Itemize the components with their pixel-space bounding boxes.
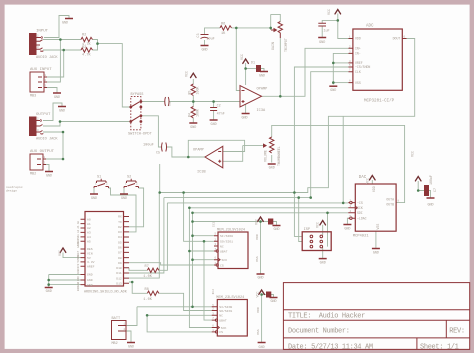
junction at 48.7,284.6 — [47, 283, 50, 286]
power VCC R5 — [191, 73, 197, 77]
pushbutton S2 — [124, 179, 139, 188]
bypass switch S3 — [131, 97, 141, 130]
wire jack ring to R2 — [43, 39, 81, 41]
power VCC ADC — [335, 10, 341, 14]
svg-text:R5: R5 — [188, 91, 192, 95]
wire dac out up and to volume pot — [272, 125, 405, 202]
wire pot wiper to ic3b plus — [223, 146, 243, 162]
svg-text:TX: TX — [118, 220, 122, 224]
ground R4 — [189, 122, 197, 124]
junction at 260.5,221.5 — [259, 220, 262, 223]
svg-text:100K: 100K — [196, 109, 200, 117]
wire trimpot loop — [270, 14, 272, 30]
wire V192 — [192, 213, 194, 307]
wire bus L3 to DAC cs — [167, 202, 348, 204]
junction at 193.3,101.5 — [192, 100, 195, 103]
wire output jack tip to gnd — [43, 103, 62, 121]
svg-text:5V: 5V — [77, 259, 80, 263]
ground C3 — [201, 45, 209, 47]
svg-text:R7: R7 — [145, 265, 149, 269]
svg-text:NC: NC — [219, 314, 223, 318]
capacitor C9 — [267, 292, 271, 297]
svg-text:GND: GND — [257, 277, 263, 281]
svg-text:VIN: VIN — [77, 255, 80, 260]
svg-text:GND: GND — [269, 167, 275, 171]
ground volume pot — [268, 163, 276, 165]
junction at 192.5,212.8 — [191, 212, 194, 215]
svg-text:SI/SIO0: SI/SIO0 — [220, 234, 233, 238]
op-amp IC3A — [240, 86, 262, 108]
svg-text:MCP4921: MCP4921 — [353, 235, 370, 239]
wire output jack sleeve down — [43, 132, 63, 159]
power VCC shield 5V — [60, 248, 66, 252]
wire mem2 CS — [147, 315, 212, 332]
junction at 270.7,27.9 — [269, 27, 272, 30]
battery connector — [112, 321, 127, 340]
junction at 310.7,197.6 — [309, 196, 312, 199]
svg-text:GAIN: GAIN — [271, 42, 275, 50]
wire V183 upper — [184, 193, 214, 242]
svg-text:CS: CS — [219, 330, 223, 334]
svg-text:D1: D1 — [251, 61, 255, 65]
wire R7 left — [129, 268, 147, 271]
power VCC IC3A — [243, 59, 249, 63]
wire mem2 SI / battery line — [137, 306, 212, 308]
wire C2 stubs — [213, 102, 215, 108]
resistor R7 — [147, 268, 158, 272]
wire output jack ring — [43, 121, 60, 127]
svg-text:VDD: VDD — [355, 37, 361, 41]
svg-text:MEM_23LSV1024: MEM_23LSV1024 — [216, 296, 244, 300]
svg-text:VCC: VCC — [316, 222, 320, 228]
wire ic3b feedback loop — [188, 140, 244, 157]
junction at 60,121.5 — [59, 120, 62, 123]
junction at 159.7,192.5 — [158, 191, 161, 194]
wire mem1 CS — [129, 263, 214, 265]
wire dac vcc — [371, 180, 373, 184]
ground shield — [45, 287, 53, 289]
svg-text:S2: S2 — [127, 176, 131, 180]
junction at 189.4,207.8 — [188, 207, 191, 210]
power VCC IC1 — [258, 217, 264, 221]
junction at 333.3,62.9 — [332, 62, 335, 65]
svg-text:SO/SIO1: SO/SIO1 — [220, 240, 233, 244]
svg-text:A2: A2 — [87, 226, 91, 230]
output jack contacts — [36, 119, 43, 134]
resistor R8 — [147, 291, 158, 295]
wire bus L2 — [164, 197, 311, 199]
wire R7 riser — [159, 203, 168, 270]
ground battery — [127, 342, 135, 344]
svg-text:Date: 5/27/13 11:34 AM: Date: 5/27/13 11:34 AM — [288, 344, 373, 352]
wire R6 right to ic3a inverting — [232, 27, 271, 29]
wire R2 right — [93, 40, 98, 51]
wire bus L5 to DAC sdi — [193, 212, 349, 214]
svg-text:ARDUINO_SHIELD_NO_ADK: ARDUINO_SHIELD_NO_ADK — [84, 291, 128, 295]
ground IC1 rail — [257, 273, 265, 275]
svg-text:MEM_23LSV1024: MEM_23LSV1024 — [217, 229, 245, 233]
junction at 147.1,315.3 — [146, 314, 149, 317]
capacitor C3 10uF — [201, 35, 209, 39]
svg-text:MB2: MB2 — [112, 342, 118, 346]
svg-text:C7: C7 — [433, 188, 437, 192]
memory IC1 box — [218, 232, 248, 269]
svg-text:INPUT: INPUT — [36, 30, 49, 34]
svg-text:AREF: AREF — [77, 268, 80, 275]
wire mem2 vdd-vss rail — [261, 295, 263, 343]
ground IC3A — [242, 113, 250, 115]
wire ic3a gnd stub — [245, 104, 247, 114]
svg-text:GND: GND — [330, 89, 336, 93]
svg-text:GND: GND — [241, 117, 247, 121]
junction at 337.8,20.4 — [337, 19, 340, 22]
svg-text:VSS: VSS — [355, 81, 361, 85]
junction at 343.2,202.9 — [342, 202, 345, 205]
aux output connector MB2 — [30, 154, 43, 170]
svg-text:C1: C1 — [169, 102, 173, 106]
svg-text:AUDIO JACK: AUDIO JACK — [36, 138, 58, 142]
svg-text:UBAT: UBAT — [220, 249, 228, 253]
svg-text:TITLE: Audio Hacker: TITLE: Audio Hacker — [288, 313, 365, 321]
wire ic3a output to ADC IN+ — [262, 48, 349, 96]
wire bus L4 to DAC sck — [189, 207, 348, 209]
svg-text:GND: GND — [319, 41, 325, 45]
capacitor C8 — [269, 219, 273, 224]
svg-text:VCC: VCC — [185, 71, 189, 77]
wire L1 down to D12 — [129, 193, 159, 279]
ground aux output — [45, 171, 53, 173]
svg-text:D8: D8 — [118, 256, 122, 260]
svg-text:IC3B: IC3B — [197, 171, 206, 175]
svg-text:A2: A2 — [77, 229, 80, 233]
shield pin names right — [116, 215, 122, 286]
svg-text:4.7K: 4.7K — [82, 54, 91, 58]
power VCC ISP — [320, 221, 326, 225]
wire dac C7 — [418, 181, 424, 191]
svg-text:D12: D12 — [116, 276, 122, 280]
junction at 97.5,43.6 — [96, 42, 99, 45]
svg-text:VCC: VCC — [411, 151, 415, 157]
svg-text:R3: R3 — [82, 46, 86, 50]
svg-text:GND: GND — [91, 197, 97, 201]
wire V189 — [189, 208, 211, 328]
svg-text:GND: GND — [54, 96, 60, 100]
svg-text:VCC: VCC — [240, 54, 244, 60]
junction at 189.4,251 — [188, 250, 191, 253]
capacitor C2 — [210, 108, 217, 111]
ground S2 — [120, 193, 128, 195]
svg-text:OUTB: OUTB — [386, 203, 394, 207]
wire output jack to switch (long) — [60, 121, 131, 123]
svg-text:CLK: CLK — [355, 70, 361, 74]
junction at 418.2,190.5 — [417, 189, 420, 192]
wire R5 bottom / R4 top node — [192, 96, 194, 107]
wire node to bypass switch — [98, 44, 131, 107]
svg-text:GND: GND — [87, 273, 93, 277]
vcc arrows — [60, 10, 421, 295]
wire mem2 SO from R8 — [159, 293, 212, 310]
wire aux input pin1 — [47, 50, 64, 77]
wire C3 bottom to gnd — [204, 40, 206, 46]
wire L2 down to D11 — [129, 198, 164, 273]
wire volume pot bottom gnd — [271, 155, 273, 163]
svg-text:D13: D13 — [116, 281, 122, 285]
junction at 327.5,212.8 — [326, 212, 329, 215]
wire aux input pin3 to gnd — [47, 88, 57, 94]
shield right pin stubs — [124, 217, 130, 284]
svg-text:CS: CS — [220, 263, 224, 267]
svg-text:GND: GND — [121, 197, 127, 201]
junction at 183.6,192.5 — [182, 191, 185, 194]
svg-text:VCC: VCC — [255, 219, 259, 225]
wire dac vss gnd — [375, 231, 377, 248]
memory IC2 box — [217, 300, 247, 337]
svg-text:GND: GND — [46, 175, 52, 179]
ground C9 — [270, 297, 278, 299]
svg-text:A1: A1 — [87, 222, 91, 226]
junction at 333.3,82.6 — [332, 81, 335, 84]
junction at 298.7,197.6 — [297, 196, 300, 199]
DAC IC4 box — [355, 184, 396, 231]
svg-text:Document Number:: Document Number: — [288, 327, 350, 335]
shield pin names left — [87, 217, 95, 286]
shield outside rotated pin labels — [76, 221, 80, 292]
svg-text:GND: GND — [320, 262, 326, 266]
svg-text:GND: GND — [273, 228, 279, 232]
svg-text:RX: RX — [118, 215, 122, 219]
wire isp row2 — [299, 198, 303, 242]
junction at 280.3,96.3 — [279, 95, 282, 98]
svg-text:ISP: ISP — [304, 228, 310, 232]
svg-text:GND: GND — [259, 346, 265, 350]
svg-text:D6: D6 — [118, 246, 122, 250]
svg-text:GND: GND — [211, 123, 217, 127]
junction at 192.5,259.7 — [191, 258, 194, 261]
svg-text:~LDAC: ~LDAC — [357, 216, 367, 220]
svg-text:C5: C5 — [156, 152, 160, 156]
wire adc bypass cap c4 — [322, 20, 338, 23]
junction at 63,132 — [62, 131, 65, 134]
svg-text:1.0K: 1.0K — [143, 275, 152, 279]
wire switch throw down to C5 — [141, 116, 162, 147]
svg-text:SWITCH-DPDT: SWITCH-DPDT — [128, 133, 153, 137]
wire V204 — [204, 241, 212, 320]
svg-text:100K: 100K — [196, 87, 200, 95]
wire trimpot bottom to ic3a out — [279, 38, 281, 96]
ground output jack top — [58, 106, 66, 108]
svg-text:100uF: 100uF — [143, 144, 154, 148]
wire adc dout long path — [159, 39, 414, 193]
svg-text:OPAMP: OPAMP — [257, 88, 268, 92]
ADC IC5 box — [353, 29, 402, 90]
svg-text:A0: A0 — [77, 221, 80, 225]
wire aux output pin2 to gnd — [46, 165, 49, 172]
nootropic design logo text — [6, 185, 23, 193]
svg-text:SCK: SCK — [221, 326, 227, 330]
svg-text:1.0K: 1.0K — [143, 298, 152, 302]
svg-text:GND: GND — [373, 252, 379, 256]
junction at 294.4,192.5 — [293, 191, 296, 194]
svg-text:MCP3201-CI/P: MCP3201-CI/P — [364, 99, 395, 104]
svg-text:GND: GND — [87, 278, 93, 282]
wire ic3a vcc stub — [245, 63, 247, 85]
svg-text:OUTPUT: OUTPUT — [36, 113, 51, 117]
ground input jack top — [65, 18, 73, 20]
wire tx vert — [159, 164, 161, 193]
ground DAC ldac — [343, 224, 351, 226]
wire switch to C1 — [141, 101, 165, 103]
junction at 60.4,39.5 — [59, 38, 62, 41]
ground C8 — [273, 225, 281, 227]
junction at 132.2,282 — [131, 281, 134, 284]
svg-text:BYPASS: BYPASS — [131, 93, 144, 97]
svg-text:VDD: VDD — [255, 234, 259, 240]
svg-text:VDD: VDD — [256, 307, 260, 313]
capacitor C7 — [425, 186, 429, 196]
trimpot R9 — [278, 22, 282, 39]
aux input connector MB3 — [30, 72, 44, 92]
svg-text:SDI: SDI — [357, 211, 363, 215]
volume pot — [270, 137, 274, 153]
svg-text:OUTA: OUTA — [386, 198, 394, 202]
svg-text:VCC: VCC — [366, 178, 370, 184]
wire mem1 vdd-vss rail — [260, 222, 262, 275]
svg-text:SCK: SCK — [222, 258, 228, 262]
wire d1 branch — [246, 68, 257, 70]
wire shield 5V to VCC — [63, 253, 81, 258]
capacitor C4 0.1uF — [318, 23, 326, 26]
output jack body — [30, 117, 37, 136]
junction at 192.5,221.5 — [191, 220, 194, 223]
svg-text:R8: R8 — [145, 288, 149, 292]
wire C1 to bias node — [169, 101, 240, 103]
svg-text:THUMBWHEEL: THUMBWHEEL — [277, 146, 281, 166]
svg-text:GND: GND — [259, 75, 265, 79]
svg-text:D2: D2 — [118, 225, 122, 229]
svg-text:D7: D7 — [118, 251, 122, 255]
svg-text:IC3A: IC3A — [257, 109, 266, 113]
svg-text:R2: R2 — [82, 34, 86, 38]
svg-text:VSS: VSS — [255, 256, 259, 262]
svg-text:VCC: VCC — [256, 292, 260, 298]
junction at 213.6,101.5 — [212, 100, 215, 103]
svg-text:D4: D4 — [118, 235, 122, 239]
power VCC C7 — [415, 177, 421, 181]
wire R8 left to D13 — [129, 282, 147, 293]
svg-text:A1: A1 — [77, 225, 80, 229]
svg-text:TRIMPOT: TRIMPOT — [284, 38, 288, 52]
svg-text:GND: GND — [427, 204, 433, 208]
wire mem2 NC row — [147, 314, 212, 316]
capacitor C1 — [165, 97, 169, 106]
svg-text:10uF: 10uF — [207, 38, 215, 42]
wire aux output pin1 — [46, 158, 63, 160]
ground C7 — [427, 197, 435, 199]
svg-text:GND: GND — [87, 283, 93, 287]
svg-text:C3: C3 — [197, 34, 201, 38]
wire aux input pin2 — [47, 40, 60, 83]
svg-text:GND: GND — [46, 290, 52, 294]
svg-text:D5: D5 — [118, 240, 122, 244]
svg-text:~CS/SHDN: ~CS/SHDN — [355, 65, 370, 69]
junction at 63,159 — [62, 158, 65, 161]
resistor R5 vertical — [191, 84, 195, 95]
page border frame — [0, 0, 474, 5]
svg-text:GND: GND — [62, 22, 68, 26]
svg-text:47nF: 47nF — [217, 113, 225, 117]
svg-text:.1uF: .1uF — [321, 30, 329, 34]
svg-text:VDD: VDD — [372, 186, 376, 192]
junction at 192.5,306.8 — [191, 306, 194, 309]
junction at 192.5,235.7 — [191, 234, 194, 237]
wire mem1 SI branch — [193, 235, 215, 237]
wire adc vcc — [338, 14, 349, 39]
svg-text:D3: D3 — [118, 230, 122, 234]
wire adc cs down to isp — [294, 67, 348, 236]
junction at 245.6,68.5 — [244, 67, 247, 70]
ground S1 — [90, 193, 98, 195]
svg-text:UBAT: UBAT — [219, 318, 227, 322]
svg-text:IN-: IN- — [355, 52, 361, 56]
op-amp IC3B (pointing left) — [205, 146, 223, 168]
wire mem1 SCK branch — [193, 259, 215, 261]
wire mosi to isp — [327, 213, 329, 247]
resistor R4 vertical — [191, 107, 195, 118]
capacitor C5 100uF — [162, 143, 167, 152]
svg-text:design: design — [6, 189, 17, 193]
pushbutton S1 — [94, 179, 109, 188]
wire S2 leg — [123, 188, 125, 194]
wire dac ldac to gnd — [346, 218, 349, 224]
svg-text:R6: R6 — [221, 23, 225, 27]
shield left pin stubs — [81, 219, 86, 284]
svg-text:MB2: MB2 — [30, 173, 36, 177]
svg-text:GND: GND — [77, 276, 80, 281]
wire vert mystery — [342, 116, 344, 203]
svg-text:AUX OUTPUT: AUX OUTPUT — [30, 150, 55, 154]
svg-text:~CS: ~CS — [357, 201, 363, 205]
input jack J1 body — [30, 34, 37, 55]
svg-text:Sheet: 1/1: Sheet: 1/1 — [420, 344, 459, 352]
junction at 204,241.3 — [203, 240, 206, 243]
svg-text:AUDIO JACK: AUDIO JACK — [36, 56, 58, 60]
junction at 261.6,294.5 — [260, 293, 263, 296]
ground C4 — [318, 37, 326, 39]
wire jack sleeve to R3 — [43, 49, 81, 51]
svg-text:A4: A4 — [87, 235, 91, 239]
svg-text:GND: GND — [59, 110, 65, 114]
wire adc gnd bundle — [333, 53, 348, 84]
wire input jack tip to gnd — [44, 16, 69, 38]
svg-text:IC1: IC1 — [212, 221, 216, 227]
wire C5 right to ic3b out — [167, 147, 206, 157]
svg-text:GND: GND — [77, 281, 80, 286]
svg-text:3V3: 3V3 — [77, 263, 80, 268]
svg-text:BATT: BATT — [112, 317, 121, 321]
power VCC DAC — [370, 176, 376, 180]
ADC pin names — [355, 37, 400, 85]
svg-text:NC: NC — [220, 244, 224, 248]
wire R5 to VCC — [192, 79, 194, 84]
power VCC IC2 — [259, 290, 265, 294]
wire isp vcc/gnd vertical — [322, 225, 324, 235]
ground ISP — [319, 258, 327, 260]
wire S1 leg — [93, 188, 95, 194]
svg-text:DOUT: DOUT — [393, 37, 401, 41]
svg-text:S1: S1 — [97, 176, 101, 180]
svg-text:SO/SIO1: SO/SIO1 — [219, 309, 232, 313]
svg-text:VCC: VCC — [327, 9, 331, 15]
